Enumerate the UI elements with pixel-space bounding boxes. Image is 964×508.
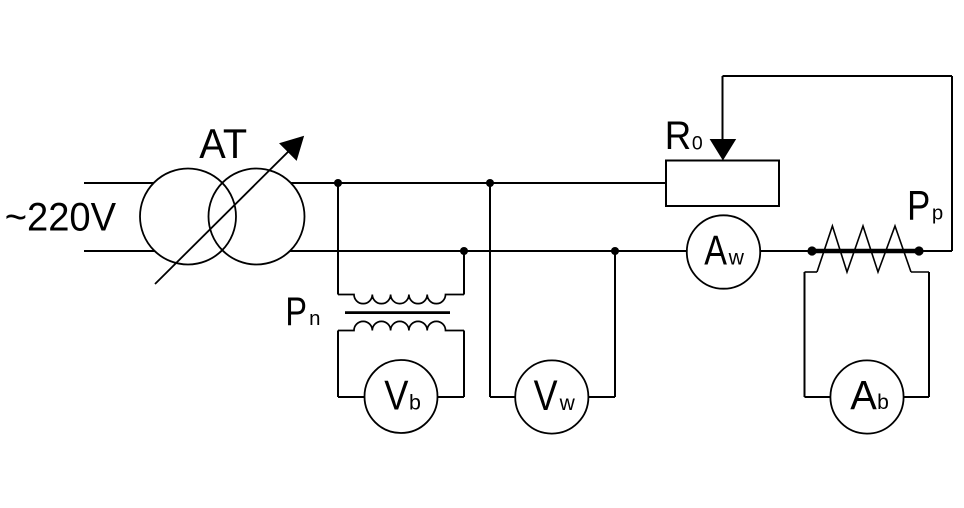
wire secondary left down to voltmeter Vb bbox=[337, 331, 339, 398]
wire ammeter Ab right vertical bbox=[928, 272, 930, 397]
svg-text:n: n bbox=[309, 308, 320, 330]
svg-text:p: p bbox=[932, 202, 943, 224]
wire vertical from top line down to voltmeter Vw left bbox=[489, 183, 491, 397]
wire secondary right down to voltmeter Vb bbox=[463, 331, 465, 398]
voltmeter Vb body bbox=[365, 360, 438, 433]
label V_w bbox=[534, 372, 576, 420]
svg-text:w: w bbox=[728, 246, 745, 269]
wire P_p left tap step bbox=[805, 271, 818, 273]
autotransformer AT right circle bbox=[209, 169, 305, 265]
wire feedback top horizontal bbox=[723, 75, 953, 77]
wire P_p right tap step bbox=[911, 271, 929, 273]
transformer P_n secondary winding bbox=[338, 321, 464, 330]
wire ammeter Ab horizontal leads bbox=[805, 396, 930, 398]
wire feedback right vertical down to P_p right end bbox=[951, 76, 953, 251]
node junction dot bottom line to primary bbox=[460, 247, 468, 255]
voltmeter Vw body bbox=[515, 360, 588, 433]
transformer P_n primary winding bbox=[338, 295, 464, 304]
wire top supply line bbox=[84, 182, 666, 184]
svg-text:P: P bbox=[285, 289, 307, 334]
node junction dot bottom line to Vw bbox=[611, 247, 619, 255]
wire vertical from top line to transformer primary left bbox=[337, 183, 339, 295]
transformer P_n core bar bbox=[345, 311, 450, 314]
resistor heater zigzag around P_p bbox=[817, 226, 911, 272]
label A_w bbox=[704, 228, 744, 274]
label P_n bbox=[285, 289, 320, 334]
wire bottom supply line bbox=[84, 250, 952, 252]
svg-text:P: P bbox=[907, 183, 930, 230]
rheostat R0 slider arrow bbox=[711, 76, 736, 160]
svg-text:0: 0 bbox=[692, 133, 703, 155]
autotransformer AT left circle bbox=[140, 169, 305, 265]
ammeter Aw body bbox=[687, 215, 760, 288]
svg-text:b: b bbox=[877, 391, 889, 414]
label A_b bbox=[850, 371, 889, 418]
wire vertical from bottom line to transformer primary right bbox=[463, 251, 465, 295]
svg-text:~220V: ~220V bbox=[5, 196, 116, 240]
svg-text:V: V bbox=[384, 372, 408, 419]
svg-text:AT: AT bbox=[199, 120, 247, 167]
label R_0 bbox=[665, 113, 703, 158]
ammeter Ab body bbox=[830, 360, 903, 433]
svg-text:R: R bbox=[665, 113, 691, 158]
wire vertical from bottom line down to voltmeter Vw right bbox=[614, 251, 616, 397]
node junction dot top line to primary bbox=[334, 179, 342, 187]
svg-text:A: A bbox=[704, 228, 727, 274]
svg-text:b: b bbox=[409, 391, 421, 415]
svg-text:w: w bbox=[559, 392, 576, 415]
wire voltmeter Vw horizontal leads bbox=[490, 396, 615, 398]
node P_p right terminal dot bbox=[914, 246, 923, 255]
sample wire P_p thick conductor bbox=[812, 249, 919, 254]
node junction dot top line to Vw bbox=[486, 179, 494, 187]
label P_p bbox=[907, 183, 943, 230]
label V_b bbox=[384, 372, 421, 419]
svg-text:A: A bbox=[850, 371, 877, 418]
autotransformer AT adjustment arrow bbox=[155, 137, 303, 285]
node P_p left terminal dot bbox=[807, 246, 816, 255]
wire ammeter Ab left vertical bbox=[804, 272, 806, 397]
wire voltmeter Vb horizontal leads bbox=[338, 396, 464, 398]
rheostat R0 body bbox=[666, 161, 779, 207]
svg-text:V: V bbox=[534, 372, 559, 420]
